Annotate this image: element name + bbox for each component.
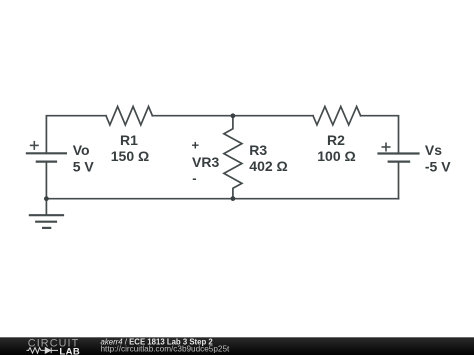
svg-text:-: - xyxy=(192,171,196,186)
wire: bottom rail left (ground node to R3 bottom) xyxy=(46,198,233,200)
svg-text:+: + xyxy=(192,137,200,152)
Vo polarity + marker xyxy=(30,141,39,150)
wire: R1 to node A (R3 top) xyxy=(152,115,233,117)
ground xyxy=(29,199,64,228)
svg-text:150 Ω: 150 Ω xyxy=(111,148,149,164)
svg-text:Vs: Vs xyxy=(425,142,442,158)
Vs polarity + marker xyxy=(382,143,391,152)
wire: bottom rail right (R3 bottom to Vs-) xyxy=(233,198,399,200)
junction dot: bottom of R3 xyxy=(231,196,236,201)
svg-text:R3: R3 xyxy=(249,142,267,158)
svg-text:-5 V: -5 V xyxy=(425,158,451,174)
wire: R2 to Vs+ xyxy=(361,116,399,154)
resistor R1 xyxy=(106,107,152,125)
svg-text:R2: R2 xyxy=(327,132,345,148)
wire: Vo+ up and top rail to R1 xyxy=(46,116,106,154)
resistor R2 xyxy=(313,107,361,125)
voltage source Vs (battery symbol) xyxy=(377,154,419,162)
svg-text:100 Ω: 100 Ω xyxy=(317,148,355,164)
svg-text:http://circuitlab.com/c3b9udce: http://circuitlab.com/c3b9udce5p25t xyxy=(101,345,231,354)
svg-text:LAB: LAB xyxy=(59,346,80,355)
wire: Vs- down to bottom rail xyxy=(398,162,400,199)
junction dot: ground node xyxy=(44,196,49,201)
svg-text:R1: R1 xyxy=(120,132,138,148)
voltage source Vo (battery symbol) xyxy=(26,153,67,161)
svg-text:VR3: VR3 xyxy=(192,154,219,170)
CircuitLab logo resistor-diode doodle xyxy=(27,348,59,354)
svg-text:5 V: 5 V xyxy=(73,158,95,174)
wire: Vo- down to ground node xyxy=(45,162,47,199)
wire: node A to R2 xyxy=(233,115,313,117)
svg-text:Vo: Vo xyxy=(73,142,90,158)
junction dot: node A (top of R3) xyxy=(231,113,236,118)
resistor R3 with terminal stubs xyxy=(224,116,242,199)
svg-text:402 Ω: 402 Ω xyxy=(249,158,287,174)
